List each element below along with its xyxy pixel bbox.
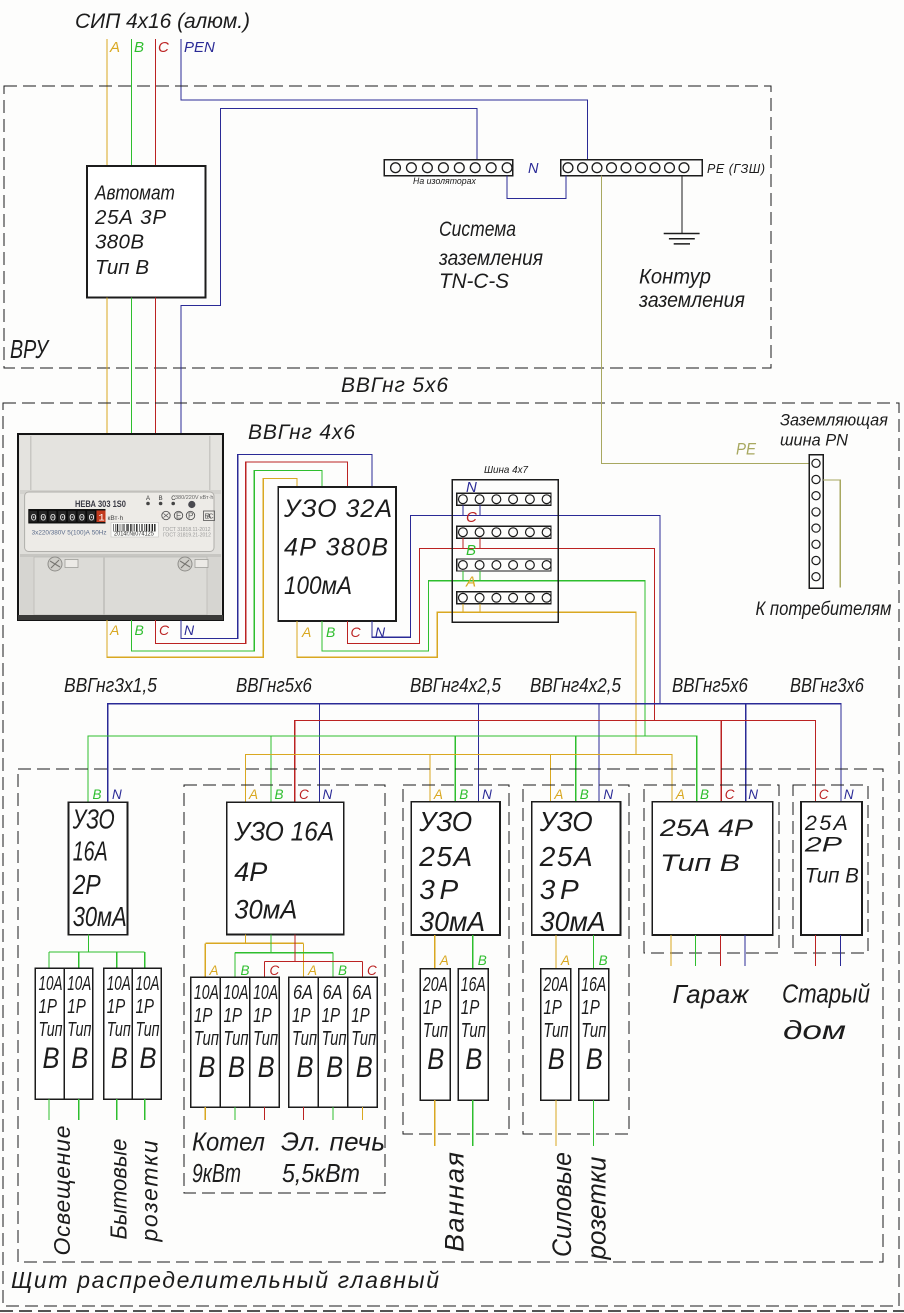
svg-text:N: N: [184, 622, 195, 638]
svg-text:1Р: 1Р: [107, 995, 126, 1018]
wire B meter to УЗО1: [132, 471, 323, 651]
RCD УЗО5 25А 3Р box: [532, 802, 621, 935]
svg-text:Тип: Тип: [194, 1027, 219, 1050]
svg-text:С: С: [819, 787, 829, 802]
label Система заземления TN-C-S: [439, 219, 516, 242]
svg-text:Р: Р: [188, 512, 193, 521]
svg-text:В: В: [159, 496, 163, 502]
wire PEN conductor to ГЗШ: [181, 39, 588, 161]
svg-text:4Р: 4Р: [234, 857, 267, 887]
svg-text:УЗО 16А: УЗО 16А: [233, 818, 334, 847]
svg-text:Бытовые: Бытовые: [106, 1139, 132, 1240]
svg-text:В: В: [478, 953, 487, 968]
svg-text:1Р: 1Р: [253, 1004, 272, 1027]
svg-text:Тип: Тип: [107, 1018, 131, 1041]
wire C УЗО1 to шина: [348, 549, 655, 721]
wire B УЗО1 to шина: [322, 581, 645, 736]
bottom page dashed line: [0, 1310, 904, 1312]
svg-text:1Р: 1Р: [581, 996, 600, 1019]
svg-text:N: N: [112, 787, 122, 802]
svg-text:А: А: [465, 574, 476, 591]
svg-text:С: С: [270, 963, 280, 978]
svg-text:1Р: 1Р: [67, 995, 86, 1018]
svg-text:Заземляющая: Заземляющая: [780, 410, 888, 429]
enclosure Старый дом dashed box: [793, 785, 868, 953]
svg-text:Котел: Котел: [192, 1128, 265, 1157]
wire N-PE bridge: [507, 176, 566, 199]
load label Бытовые розетки: [106, 1139, 132, 1240]
svg-text:Шина 4х7: Шина 4х7: [484, 465, 528, 476]
breaker 16А 1Р Тип В (group4 Силовые розетки): [579, 969, 609, 1100]
svg-text:А: А: [560, 953, 570, 968]
inner dashed box of distribution groups: [18, 769, 883, 1262]
breaker QF9 6А 1Р Тип В: [289, 977, 319, 1107]
wire phase C QF1 to meter: [155, 298, 157, 435]
wire B drop group2: [270, 736, 272, 802]
svg-text:Тип: Тип: [224, 1027, 249, 1050]
svg-text:А: А: [307, 963, 317, 978]
RCD УЗО4 25А 3Р box: [411, 802, 500, 935]
load wires group4 Силовые розетки: [555, 1100, 557, 1146]
svg-text:380/220V кВт·h: 380/220V кВт·h: [175, 495, 213, 501]
enclosure Гараж dashed box: [644, 785, 779, 953]
wire N return from N busbar to meter: [181, 109, 477, 435]
svg-text:N: N: [844, 787, 854, 802]
busbar row N of шина: [457, 493, 551, 505]
wire C fan group2: [294, 935, 296, 962]
wire phase A QF1 to meter: [106, 298, 108, 435]
wire A drop group4: [550, 755, 552, 803]
svg-text:В: В: [135, 622, 144, 638]
svg-text:Освещение: Освещение: [49, 1126, 75, 1256]
svg-text:В: В: [548, 1042, 565, 1075]
cable label ВВГнг4х2,5 (group 4): [530, 674, 622, 697]
svg-text:В: В: [459, 787, 468, 802]
svg-text:N: N: [466, 479, 477, 496]
svg-text:В: В: [228, 1050, 245, 1083]
svg-text:6А: 6А: [323, 980, 343, 1003]
svg-text:2Р: 2Р: [72, 870, 101, 901]
svg-text:В: В: [71, 1041, 88, 1074]
svg-text:А: А: [209, 963, 219, 978]
wire PE to consumers: [823, 480, 840, 588]
svg-text:100мА: 100мА: [284, 572, 352, 600]
svg-text:Тип В: Тип В: [95, 256, 149, 279]
svg-text:дом: дом: [783, 1015, 846, 1044]
enclosure group4 Силовые розетки dashed box: [523, 785, 629, 1134]
svg-text:1Р: 1Р: [292, 1004, 311, 1027]
svg-text:1Р: 1Р: [322, 1004, 341, 1027]
svg-text:ВВГнг3х1,5: ВВГнг3х1,5: [64, 674, 157, 696]
svg-text:С: С: [367, 963, 377, 978]
svg-text:25А: 25А: [539, 841, 593, 872]
svg-text:Тип: Тип: [581, 1019, 606, 1042]
svg-text:30мА: 30мА: [419, 905, 485, 937]
svg-text:10А: 10А: [67, 972, 91, 994]
wire A meter to УЗО1 (ВВГнг 4х6): [107, 479, 297, 658]
svg-text:А: А: [439, 953, 449, 968]
breaker 20А 1Р Тип В (group4 Силовые розетки): [541, 969, 571, 1100]
svg-text:В: В: [599, 953, 608, 968]
svg-text:0: 0: [79, 513, 85, 525]
svg-text:В: В: [356, 1050, 373, 1083]
svg-text:ЕАС: ЕАС: [205, 514, 214, 521]
svg-text:С: С: [159, 622, 170, 638]
cable label ВВГнг3х1,5: [64, 674, 157, 696]
svg-text:25А: 25А: [418, 841, 472, 872]
svg-text:розетки: розетки: [137, 1140, 163, 1242]
svg-text:20А: 20А: [422, 972, 448, 995]
svg-text:16А: 16А: [461, 972, 486, 995]
svg-text:20А: 20А: [543, 972, 569, 995]
svg-text:380В: 380В: [95, 231, 144, 254]
svg-text:В: В: [93, 787, 102, 802]
wire N drop гараж: [745, 704, 747, 802]
wire N drop group2: [319, 704, 321, 803]
svg-text:А: А: [109, 622, 119, 638]
svg-text:10А: 10А: [107, 972, 131, 994]
svg-text:Тип: Тип: [351, 1027, 376, 1050]
svg-text:ВВГнг4х2,5: ВВГнг4х2,5: [530, 674, 622, 697]
svg-text:РЕ: РЕ: [736, 440, 756, 459]
svg-text:В: В: [241, 963, 250, 978]
svg-text:В: В: [580, 787, 589, 802]
wire A УЗО4 to breaker: [434, 935, 436, 969]
svg-text:Тип В: Тип В: [805, 864, 859, 888]
svg-text:А: А: [301, 624, 311, 640]
svg-text:Тип: Тип: [253, 1027, 278, 1050]
breaker QF11 6А 1Р Тип В: [348, 977, 378, 1107]
wire C meter to УЗО1: [156, 462, 348, 644]
svg-text:0: 0: [60, 513, 66, 525]
svg-text:30мА: 30мА: [234, 894, 297, 925]
busbar row С of шина: [457, 526, 551, 538]
svg-text:N: N: [748, 787, 758, 802]
svg-text:В: В: [43, 1041, 60, 1074]
wire C drop гараж: [720, 721, 722, 802]
svg-text:30мА: 30мА: [73, 901, 127, 932]
load label Старый дом: [782, 980, 870, 1009]
svg-text:3Р: 3Р: [419, 874, 458, 905]
cable label ВВГнг3х6 (старый дом): [790, 673, 865, 696]
svg-text:Тип: Тип: [292, 1027, 317, 1050]
svg-text:Автомат: Автомат: [94, 182, 175, 205]
svg-text:ВВГнг3х6: ВВГнг3х6: [790, 673, 865, 696]
svg-text:Тип: Тип: [543, 1019, 568, 1042]
svg-text:В: В: [427, 1042, 444, 1075]
wire B УЗО5 to breaker: [593, 935, 595, 969]
svg-text:С: С: [158, 39, 169, 56]
wire to ground electrode: [681, 176, 683, 233]
svg-text:С: С: [725, 787, 735, 802]
svg-text:Тип: Тип: [67, 1018, 91, 1041]
breaker 25А 2Р Тип В (Старый дом) box: [801, 802, 862, 935]
svg-text:В: В: [258, 1050, 275, 1083]
breaker QF3 10А 1Р Тип В: [64, 968, 93, 1099]
enclosure ВРУ dashed box: [4, 86, 771, 368]
cable label ВВГнг4х2,5 (group 3): [410, 674, 502, 697]
svg-text:10А: 10А: [224, 980, 249, 1003]
breaker QF2 10А 1Р Тип В: [35, 968, 64, 1099]
svg-text:ВВГнг4х2,5: ВВГнг4х2,5: [410, 674, 502, 697]
label Шина 4х7: [484, 465, 528, 476]
terminal block Шина 4х7 box: [452, 480, 558, 622]
svg-text:ВВГнг 4х6: ВВГнг 4х6: [248, 421, 355, 444]
svg-text:УЗО: УЗО: [418, 805, 472, 837]
svg-text:В: В: [326, 1050, 343, 1083]
label ВРУ: [10, 334, 50, 363]
meter НЕВА 303 1S0 (photo): [18, 434, 223, 620]
busbar row В of шина: [457, 559, 551, 571]
breaker 16А 1Р Тип В (group3 Ванная): [458, 969, 488, 1100]
svg-text:В: В: [140, 1041, 157, 1074]
wire A drop group3: [429, 755, 431, 803]
enclosure group2 dashed box: [184, 785, 385, 1193]
svg-text:0: 0: [40, 513, 46, 525]
svg-text:А: А: [675, 787, 685, 802]
svg-text:N: N: [528, 161, 539, 177]
tap wires A row: [462, 604, 464, 613]
svg-text:Старый: Старый: [782, 980, 870, 1009]
wire A fan group2: [245, 935, 247, 944]
svg-text:5,5кВт: 5,5кВт: [282, 1160, 360, 1188]
svg-text:Система: Система: [439, 219, 516, 242]
svg-text:10А: 10А: [39, 972, 63, 994]
svg-text:В: В: [466, 542, 476, 559]
svg-text:25А 4Р: 25А 4Р: [659, 814, 754, 841]
svg-text:10А: 10А: [136, 972, 160, 994]
svg-text:0: 0: [88, 513, 94, 525]
svg-text:ВВГнг 5х6: ВВГнг 5х6: [341, 374, 448, 397]
svg-text:N: N: [603, 787, 613, 802]
breaker QF7 10А 1Р Тип В: [220, 977, 250, 1107]
svg-text:заземления: заземления: [638, 289, 745, 312]
load wires group1: [48, 1099, 50, 1120]
label РЕ: [736, 440, 756, 459]
tap wires B row: [462, 571, 464, 581]
svg-text:РЕ (ГЗШ): РЕ (ГЗШ): [707, 162, 765, 176]
svg-text:1Р: 1Р: [351, 1004, 370, 1027]
wire A УЗО1 to шина: [297, 612, 636, 754]
breaker QF1 Автомат 25А 3Р box: [87, 166, 206, 298]
breaker QF4 10А 1Р Тип В: [104, 968, 133, 1099]
svg-text:3Р: 3Р: [540, 874, 579, 905]
wire phase C drop from СИП: [155, 39, 157, 166]
svg-text:ВВГнг5х6: ВВГнг5х6: [672, 674, 749, 697]
svg-text:30мА: 30мА: [540, 905, 606, 937]
svg-text:С: С: [299, 787, 309, 802]
svg-text:А: А: [553, 787, 563, 802]
wire N meter to УЗО1: [181, 455, 372, 639]
svg-text:Силовые: Силовые: [546, 1152, 577, 1257]
svg-text:В: В: [198, 1050, 215, 1083]
wire phase B drop from СИП: [131, 39, 133, 166]
label Контур заземления: [639, 265, 711, 288]
enclosure group3 Ванная dashed box: [403, 785, 509, 1134]
svg-text:заземления: заземления: [438, 247, 543, 270]
svg-text:N: N: [323, 787, 333, 802]
svg-text:С: С: [351, 624, 362, 640]
breaker 25А 4Р Тип В (Гараж) box: [652, 802, 772, 935]
svg-text:2014г.№074125: 2014г.№074125: [114, 531, 154, 537]
svg-text:3х220/380V 5(100)А 50Hz: 3х220/380V 5(100)А 50Hz: [32, 529, 107, 536]
svg-text:16А: 16А: [73, 836, 108, 867]
svg-text:В: В: [586, 1042, 603, 1075]
svg-text:НЕВА 303 1S0: НЕВА 303 1S0: [75, 498, 126, 509]
svg-text:1Р: 1Р: [461, 996, 480, 1019]
svg-text:Тип: Тип: [39, 1018, 63, 1041]
svg-text:6А: 6А: [352, 980, 372, 1003]
svg-text:Тип: Тип: [136, 1018, 160, 1041]
svg-text:0: 0: [50, 513, 56, 525]
svg-text:розетки: розетки: [581, 1156, 612, 1260]
load wires group3 Ванная: [434, 1100, 436, 1146]
svg-text:В: В: [700, 787, 709, 802]
svg-text:25А 3Р: 25А 3Р: [94, 206, 166, 229]
svg-text:N: N: [482, 787, 492, 802]
svg-text:Ванная: Ванная: [440, 1152, 470, 1252]
svg-text:Е: Е: [176, 512, 181, 521]
busbar PE ГЗШ: [561, 160, 703, 176]
svg-text:На изоляторах: На изоляторах: [413, 176, 476, 186]
svg-text:TN-C-S: TN-C-S: [439, 270, 509, 293]
wire B fan group1: [87, 935, 89, 952]
svg-text:0: 0: [69, 513, 75, 525]
load wires гараж: [670, 935, 672, 966]
cable label ВВГнг5х6 (group 2): [236, 674, 313, 697]
wire B distribution line: [88, 736, 697, 802]
wire B УЗО4 to breaker: [472, 935, 474, 969]
RCD УЗО1 32А 4Р box: [278, 487, 396, 621]
svg-text:Тип В: Тип В: [660, 849, 740, 876]
svg-text:В: В: [326, 624, 335, 640]
wire B drop group3: [454, 736, 456, 802]
svg-text:Эл. печь: Эл. печь: [281, 1127, 385, 1157]
svg-text:6А: 6А: [293, 980, 313, 1003]
svg-text:ВРУ: ВРУ: [10, 334, 50, 363]
svg-text:Гараж: Гараж: [673, 979, 750, 1009]
breaker 20А 1Р Тип В (group3 Ванная): [420, 969, 450, 1100]
svg-text:А: А: [109, 39, 120, 56]
wire phase B QF1 to meter: [131, 298, 133, 435]
cable label ВВГнг5х6 (гараж): [672, 674, 749, 697]
breaker QF10 6А 1Р Тип В: [318, 977, 348, 1107]
svg-text:кВт·h: кВт·h: [108, 515, 124, 522]
load wires старый дом: [815, 935, 817, 966]
wire C distribution line: [295, 721, 816, 803]
wire N drop group4: [598, 704, 600, 803]
svg-text:10А: 10А: [253, 980, 278, 1003]
svg-text:1Р: 1Р: [39, 995, 58, 1018]
busbar N (на изоляторах): [384, 160, 512, 176]
svg-text:ВВГнг5х6: ВВГнг5х6: [236, 674, 313, 697]
label На изоляторах: [413, 176, 476, 186]
ground symbol: [664, 234, 700, 244]
svg-text:А: А: [146, 496, 150, 502]
svg-text:В: В: [275, 787, 284, 802]
svg-text:1Р: 1Р: [194, 1004, 213, 1027]
svg-text:0: 0: [31, 513, 37, 525]
load wires group2: [204, 1107, 206, 1120]
wire B drop group4: [575, 736, 577, 802]
svg-text:1: 1: [98, 513, 104, 525]
svg-text:9кВт: 9кВт: [192, 1158, 241, 1187]
svg-text:1Р: 1Р: [423, 996, 442, 1019]
enclosure Щит распределительный главный dashed box: [3, 403, 899, 1306]
svg-text:ГОСТ 31819.21-2012: ГОСТ 31819.21-2012: [163, 533, 211, 539]
wire A distribution line: [246, 755, 673, 803]
svg-text:В: В: [465, 1042, 482, 1075]
wire A УЗО5 to breaker: [555, 935, 557, 969]
busbar row А of шина: [457, 592, 551, 604]
wire N distribution line: [108, 704, 841, 803]
load label Котел 9кВт: [192, 1128, 265, 1157]
svg-text:В: В: [338, 963, 347, 978]
RCD УЗО2 16А 2Р box: [69, 802, 128, 934]
label Заземляющая шина PN: [780, 410, 888, 429]
svg-text:1Р: 1Р: [224, 1004, 243, 1027]
svg-text:В: В: [134, 39, 144, 56]
svg-text:К потребителям: К потребителям: [756, 598, 892, 619]
svg-text:16А: 16А: [581, 972, 606, 995]
svg-text:Тип: Тип: [322, 1027, 347, 1050]
label К потребителям: [756, 598, 892, 619]
svg-text:В: В: [111, 1041, 128, 1074]
breaker QF6 10А 1Р Тип В: [191, 977, 221, 1107]
tap wires N row: [462, 505, 464, 515]
wire B fan group2: [270, 935, 272, 953]
breaker QF8 10А 1Р Тип В: [250, 977, 280, 1107]
svg-text:А: А: [433, 787, 443, 802]
svg-text:10А: 10А: [194, 980, 219, 1003]
svg-text:УЗО: УЗО: [539, 805, 593, 837]
svg-text:А: А: [248, 787, 258, 802]
svg-text:УЗО: УЗО: [72, 805, 115, 836]
svg-text:В: В: [297, 1050, 314, 1083]
svg-text:4Р 380В: 4Р 380В: [284, 534, 388, 562]
breaker QF5 10А 1Р Тип В: [132, 968, 161, 1099]
svg-text:С: С: [466, 509, 477, 526]
tap wires C row: [462, 538, 464, 548]
svg-text:1Р: 1Р: [136, 995, 155, 1018]
svg-text:2Р: 2Р: [804, 832, 843, 857]
svg-text:Щит распределительный главный: Щит распределительный главный: [11, 1267, 439, 1293]
svg-text:СИП 4х16 (алюм.): СИП 4х16 (алюм.): [75, 10, 250, 33]
busbar Заземляющая шина PN: [809, 455, 823, 589]
svg-text:Тип: Тип: [461, 1019, 486, 1042]
load label Силовые розетки: [546, 1152, 577, 1257]
svg-text:шина PN: шина PN: [780, 430, 849, 449]
wire PE from ГЗШ to шина PN: [602, 176, 810, 464]
svg-text:Тип: Тип: [423, 1019, 448, 1042]
svg-text:Контур: Контур: [639, 265, 711, 288]
wire N drop group3: [478, 704, 480, 803]
wire phase A drop from СИП: [106, 39, 108, 166]
RCD УЗО3 16А 4Р box: [227, 802, 344, 934]
svg-text:PEN: PEN: [184, 39, 215, 56]
svg-text:УЗО 32А: УЗО 32А: [283, 495, 392, 523]
wire N УЗО1 to шина: [372, 515, 660, 703]
svg-text:1Р: 1Р: [543, 996, 562, 1019]
